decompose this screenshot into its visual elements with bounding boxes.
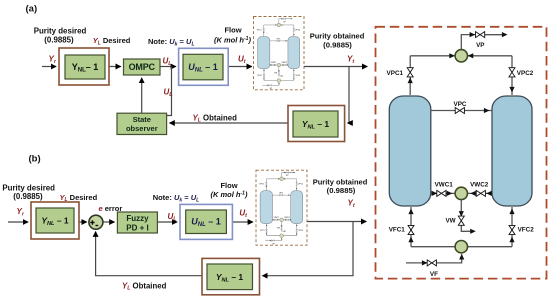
svg-text:YNL – 1: YNL – 1 [41,216,69,228]
svg-text:UL: UL [168,212,177,222]
svg-text:Ut: Ut [238,55,246,65]
svg-text:Yt: Yt [348,199,355,209]
svg-text:UNL – 1: UNL – 1 [191,217,221,229]
svg-text:YNL – 1: YNL – 1 [216,272,244,284]
svg-text:(a): (a) [26,4,38,15]
svg-text:OMPC: OMPC [129,62,156,72]
svg-text:YL Desired: YL Desired [93,36,131,46]
svg-text:(K mol h-1): (K mol h-1) [214,36,251,45]
svg-text:Yr: Yr [49,55,57,65]
svg-text:Ut: Ut [239,209,247,219]
svg-text:State: State [133,115,151,124]
svg-text:(0.9885): (0.9885) [327,186,356,195]
svg-text:YNL – 1: YNL – 1 [302,119,330,131]
svg-text:Yt: Yt [347,55,354,65]
svg-text:YL Desired: YL Desired [60,193,98,203]
svg-text:Fuzzy: Fuzzy [126,214,149,223]
svg-text:UL: UL [163,57,172,67]
svg-text:YL Obtained: YL Obtained [193,113,238,123]
svg-text:(0.9885): (0.9885) [13,192,43,201]
svg-text:(K mol h-1): (K mol h-1) [211,190,248,199]
svg-text:Flow: Flow [220,181,237,190]
svg-text:YL Obtained: YL Obtained [122,281,167,291]
svg-text:Flow: Flow [224,26,241,35]
svg-text:(b): (b) [29,154,41,165]
svg-text:Yr: Yr [17,207,25,217]
svg-text:Purity obtained: Purity obtained [313,177,368,186]
svg-text:Note: Uk = UL: Note: Uk = UL [153,193,200,203]
svg-text:observer: observer [126,124,158,133]
svg-text:UNL – 1: UNL – 1 [188,62,218,74]
svg-text:PD + I: PD + I [126,224,148,233]
svg-text:e error: e error [99,204,123,213]
svg-text:(0.9885): (0.9885) [44,36,74,45]
svg-text:Purity desired: Purity desired [34,27,87,36]
svg-text:Note: Uk = UL: Note: Uk = UL [148,37,195,47]
svg-text:(0.9885): (0.9885) [323,40,352,49]
svg-text:YNL– 1: YNL– 1 [72,62,99,74]
